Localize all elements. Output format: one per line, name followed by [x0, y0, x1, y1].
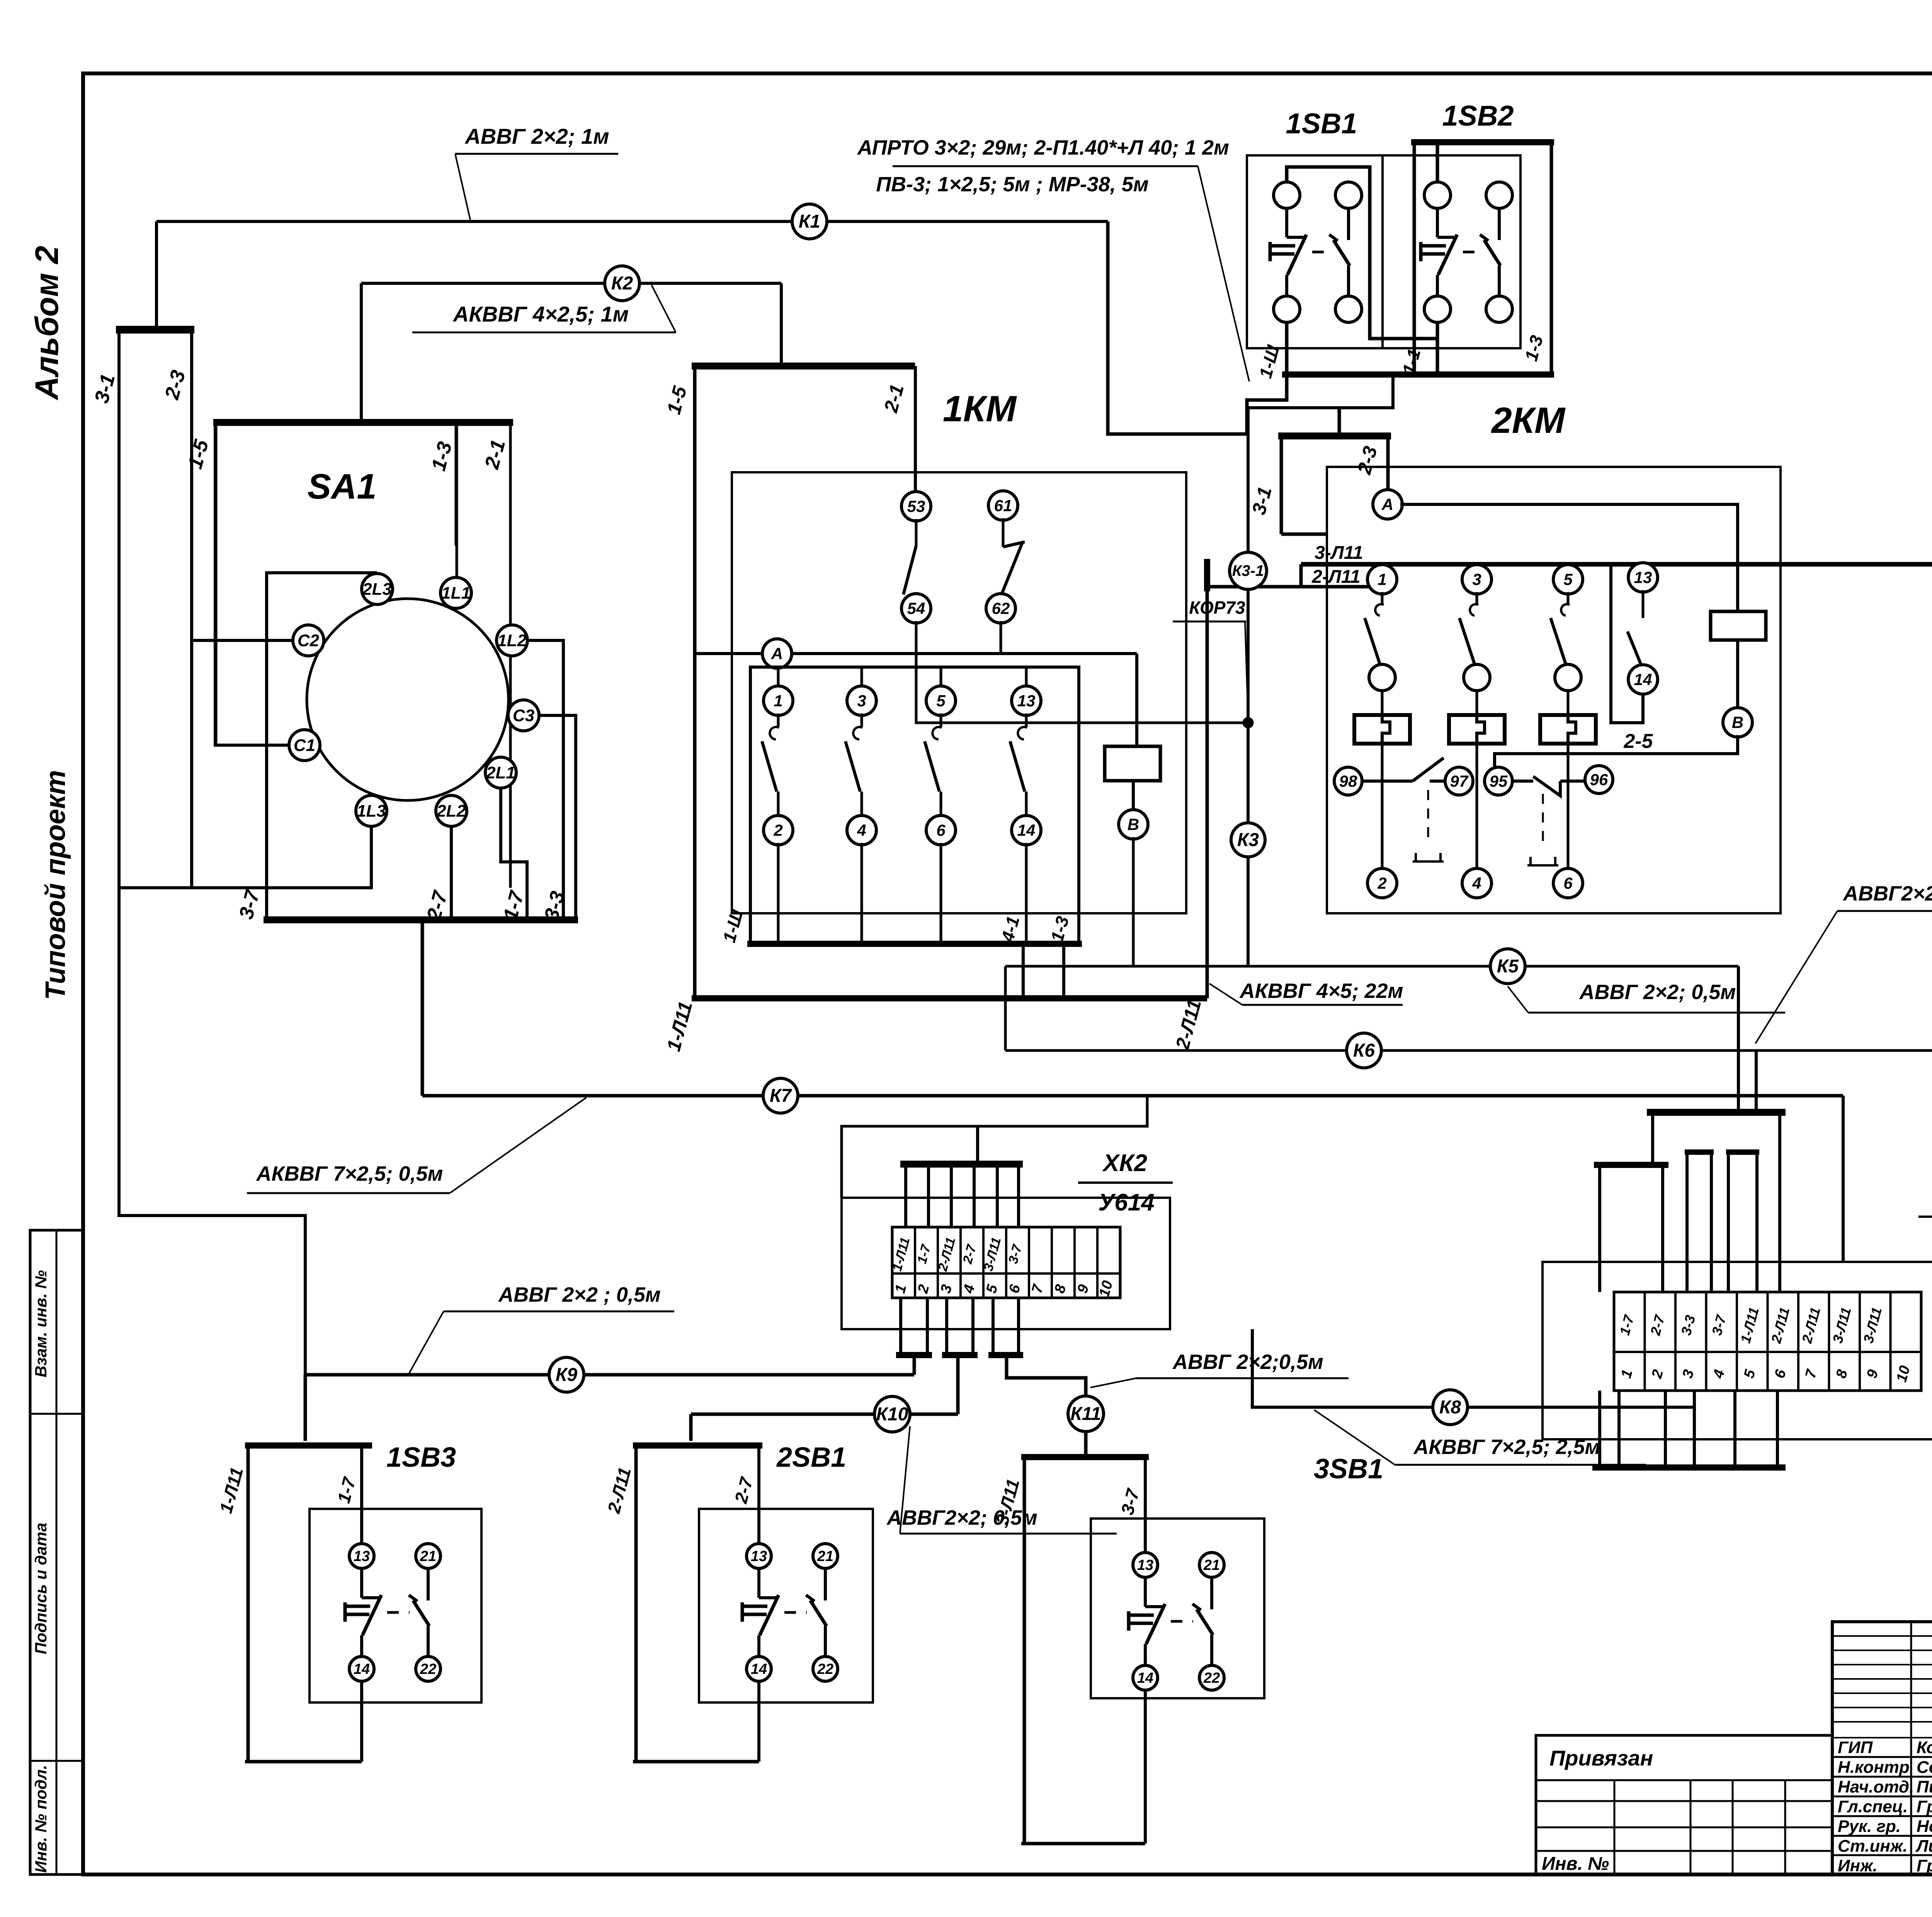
- svg-text:А: А: [1381, 495, 1393, 513]
- svg-text:21: 21: [420, 1548, 436, 1565]
- pole stem top 1: [777, 667, 780, 688]
- 2KM box: [1327, 467, 1781, 913]
- 1KM terminal 61: [988, 491, 1018, 520]
- svg-text:2КМ: 2КМ: [1491, 400, 1566, 441]
- 2SB1 bottom bus: [633, 1760, 759, 1764]
- wire K5 drop to XK1: [1737, 966, 1740, 1112]
- svg-text:К1: К1: [799, 211, 820, 232]
- 1SB2 TL stem: [1436, 142, 1439, 182]
- svg-text:Пискунов: Пискунов: [1917, 1777, 1932, 1796]
- circle K11: [1068, 1396, 1104, 1432]
- svg-text:1: 1: [774, 691, 782, 710]
- wire K8 leg to XK1: [1693, 1407, 1696, 1468]
- 2SB1 top bus: [633, 1442, 762, 1449]
- svg-text:6: 6: [1563, 874, 1573, 892]
- wire 1L2 to 3-3 leg: [527, 640, 563, 920]
- svg-text:К8: К8: [1439, 1397, 1461, 1418]
- button NO contact: [1287, 236, 1306, 239]
- svg-text:ХК2: ХК2: [1102, 1150, 1147, 1176]
- svg-text:14: 14: [1137, 1670, 1153, 1686]
- wire K7: [422, 1094, 1843, 1098]
- svg-text:2L1: 2L1: [486, 763, 515, 782]
- 1KM terminal 62: [986, 594, 1015, 623]
- svg-text:3: 3: [857, 691, 866, 710]
- 2KM terminal 6: [1553, 868, 1583, 898]
- 2KM aux dashed 2: [1542, 794, 1544, 846]
- svg-text:К10: К10: [876, 1404, 908, 1425]
- terminal 1L1: [440, 577, 471, 608]
- pole stem top 5: [940, 667, 942, 688]
- circle K3-1: [1230, 552, 1267, 589]
- button NC contact: [409, 1595, 417, 1601]
- 1SB2 BL stem: [1436, 322, 1439, 375]
- wire C3 to right leg: [539, 715, 576, 920]
- 1KM pole 13 bottom stem: [1025, 843, 1028, 944]
- wire K9: [305, 1373, 914, 1377]
- svg-text:2: 2: [1377, 874, 1386, 892]
- 2KM aux 96: [1585, 766, 1613, 793]
- wire K8: [1252, 1329, 1694, 1407]
- svg-text:Новикова: Новикова: [1917, 1817, 1932, 1836]
- svg-text:SA1: SA1: [308, 467, 377, 506]
- 2KM terminal A: [1373, 490, 1402, 519]
- svg-text:Подпись и дата: Подпись и дата: [32, 1523, 50, 1654]
- svg-text:Нач.отд.: Нач.отд.: [1838, 1777, 1914, 1796]
- 3SB1 terminal 13: [1133, 1553, 1158, 1577]
- 1KM contact 53 blade: [915, 519, 918, 546]
- 1SB2 stems: [1436, 208, 1439, 237]
- svg-text:Взам. инв. №: Взам. инв. №: [32, 1270, 50, 1377]
- 2KM terminal 4: [1462, 868, 1492, 898]
- 1KM coil to B: [1132, 781, 1135, 812]
- svg-text:13: 13: [1137, 1557, 1153, 1573]
- button NO contact: [1145, 1605, 1165, 1608]
- wire K5: [1005, 965, 1738, 968]
- wire K11 path: [1007, 1355, 1086, 1396]
- svg-text:К7: К7: [770, 1086, 793, 1106]
- 2KM wire 2-5: [1495, 735, 1738, 768]
- wire 2L3 up-left-down: [267, 573, 377, 920]
- wire 1-3 inside SA1: [456, 422, 458, 579]
- button NC contact: [1192, 1604, 1201, 1610]
- XK2 connect wire from K7: [842, 1096, 1147, 1198]
- XK1 outline box: [1543, 1262, 1932, 1439]
- svg-text:1L1: 1L1: [441, 584, 471, 603]
- XK1 top bus: [1647, 1109, 1786, 1116]
- switch SA1 box right edge: [509, 422, 512, 888]
- svg-text:1SB3: 1SB3: [386, 1442, 456, 1473]
- 1SB1 terminals: [1274, 182, 1300, 208]
- pole stem top 13: [1025, 667, 1028, 688]
- button link dashed: [784, 1611, 807, 1614]
- XK1 stub B: [1726, 1149, 1759, 1155]
- svg-text:22: 22: [1203, 1670, 1220, 1686]
- svg-text:Н.контр: Н.контр: [1838, 1758, 1910, 1777]
- button NC contact: [806, 1595, 815, 1601]
- svg-text:13: 13: [751, 1548, 767, 1565]
- XK2 top bus: [900, 1161, 1023, 1168]
- 1SB3 terminal 13: [349, 1544, 374, 1568]
- 2KM aux 95: [1485, 767, 1512, 795]
- wire 1L1 up: [455, 422, 457, 546]
- wire K2 drop to 1KM bus: [780, 283, 783, 366]
- circle K7: [763, 1078, 798, 1113]
- svg-text:А: А: [771, 644, 783, 662]
- XK1 bottom bus: [1592, 1464, 1786, 1471]
- svg-text:3: 3: [1472, 570, 1481, 588]
- terminal 2L1: [485, 757, 516, 788]
- contact blade 1-2: [777, 713, 780, 727]
- svg-text:Альбом 2: Альбом 2: [29, 246, 65, 400]
- svg-text:Сергеева: Сергеева: [1917, 1758, 1932, 1777]
- 2KM pole 1 stem upper: [1381, 666, 1384, 717]
- terminal 2L2: [436, 795, 467, 826]
- contact blade 5-6: [940, 713, 942, 727]
- vertical joining K5-K6: [1004, 966, 1007, 1050]
- cable box left top bus: [116, 326, 194, 334]
- 1SB3 stem 14 down: [360, 1680, 363, 1762]
- button link dashed: [1312, 251, 1330, 254]
- 2KM aux 95-96 contact: [1512, 780, 1533, 783]
- 1KM outer cable left leg: [693, 366, 697, 998]
- 1SB3 terminal 14: [349, 1657, 374, 1681]
- 1SB1 stems: [1285, 208, 1288, 237]
- wire 2-L11 to 2KM: [1207, 585, 1369, 589]
- 2KM heater 3: [1449, 715, 1505, 744]
- terminal 2: [764, 815, 793, 845]
- svg-text:Гл.спец.: Гл.спец.: [1838, 1797, 1908, 1816]
- button NC contact: [1480, 235, 1488, 241]
- svg-text:4: 4: [857, 821, 866, 839]
- 1KM bundle right leg 2-L11: [1206, 591, 1209, 998]
- leader K9 label: [409, 1311, 444, 1373]
- 1SB3 bottom bus: [245, 1760, 362, 1764]
- button actuator: [344, 1602, 347, 1622]
- wire SA1 bus down to K7: [421, 920, 424, 1096]
- 1SB3 terminal 22: [416, 1657, 440, 1681]
- svg-text:2SB1: 2SB1: [776, 1442, 846, 1473]
- svg-text:Грабовская: Грабовская: [1917, 1856, 1932, 1875]
- svg-text:5: 5: [936, 691, 946, 710]
- svg-text:21: 21: [817, 1548, 833, 1565]
- svg-text:АВВГ 2×2; 1м: АВВГ 2×2; 1м: [464, 124, 609, 148]
- svg-text:2L3: 2L3: [362, 580, 392, 599]
- 2KM wire terminal1 feed: [1368, 583, 1371, 586]
- 2KM aux 98-97 contact: [1362, 780, 1413, 783]
- 2SB1 terminal 22: [813, 1657, 838, 1681]
- svg-text:6: 6: [936, 821, 946, 839]
- 2KM pole 3 stem upper: [1476, 666, 1478, 717]
- svg-text:К11: К11: [1070, 1404, 1101, 1424]
- 2KM coil to B: [1736, 640, 1739, 710]
- XK2 terminal strip: [892, 1227, 1120, 1298]
- XK1 left bundle: [1594, 1162, 1668, 1168]
- 2KM pole 1 stem lower: [1381, 742, 1384, 883]
- 2KM aux dashed 1: [1427, 790, 1429, 842]
- svg-text:C1: C1: [294, 736, 315, 755]
- 2KM terminal 14: [1628, 665, 1658, 694]
- 2SB1 stem 14 down: [757, 1680, 760, 1762]
- 2SB1 contact stems: [757, 1568, 760, 1598]
- leader K11 label: [1090, 1378, 1136, 1388]
- XK2 bundle legs: [904, 1167, 907, 1227]
- leader K5 label: [1508, 986, 1528, 1013]
- 1KM inner box: [750, 667, 1079, 944]
- terminal 2L3: [362, 574, 393, 604]
- 2KM pole 3 stem lower: [1476, 742, 1478, 883]
- svg-text:АВВГ 2×2 ; 0,5м: АВВГ 2×2 ; 0,5м: [498, 1283, 661, 1306]
- 1SB2 box: [1383, 155, 1520, 348]
- SA1 box top bus: [213, 419, 513, 426]
- 3SB1 contact stems: [1144, 1577, 1147, 1607]
- wire K7 drop right: [1842, 1096, 1845, 1262]
- 1SB2 terminals: [1424, 182, 1451, 208]
- 1KM inner bottom bus: [747, 941, 1082, 947]
- terminal 3: [847, 686, 876, 715]
- wire 2L2 down to bus: [450, 826, 453, 920]
- button link dashed: [1463, 251, 1481, 254]
- XK1 stub A: [1685, 1149, 1714, 1155]
- svg-text:1L3: 1L3: [357, 802, 386, 821]
- button actuator: [741, 1602, 744, 1622]
- 3SB1 top bus: [1021, 1454, 1149, 1460]
- svg-text:Ст.инж.: Ст.инж.: [1838, 1837, 1908, 1856]
- 2KM heater 1: [1354, 715, 1410, 744]
- leader K6 label: [1755, 911, 1837, 1044]
- circle K5: [1490, 949, 1525, 984]
- svg-text:14: 14: [751, 1661, 767, 1677]
- 3SB1 left leg: [1023, 1457, 1026, 1844]
- 1SB2 outer top bus: [1411, 139, 1554, 145]
- svg-text:96: 96: [1590, 770, 1608, 788]
- title staff table: [1832, 1622, 1932, 1874]
- svg-text:62: 62: [992, 599, 1010, 617]
- 2KM cable box right leg 2-3: [1386, 436, 1390, 492]
- 1KM wire A: [695, 652, 1137, 655]
- SA1 bottom cable bus: [264, 916, 578, 923]
- terminal 13: [1012, 686, 1041, 715]
- terminal 5: [926, 686, 956, 715]
- leader KOR73: [1245, 621, 1248, 720]
- terminal 1: [764, 686, 793, 715]
- XK2 bottom stubs: [899, 1298, 902, 1353]
- leader AVVG2x2-1m: [455, 154, 471, 221]
- 2KM overload circle 5: [1555, 664, 1581, 691]
- leader AKVVG7x2.5-0.5: [450, 1098, 586, 1193]
- svg-text:2-Л11: 2-Л11: [1311, 567, 1360, 587]
- svg-text:Инж.: Инж.: [1838, 1856, 1878, 1875]
- 1KM pole 5 bottom stem: [940, 843, 942, 944]
- 2SB1 terminal 14: [747, 1657, 771, 1681]
- terminal 1L2: [497, 625, 527, 656]
- 2KM terminal 13: [1628, 563, 1658, 592]
- 2SB1 box: [699, 1509, 873, 1702]
- 2KM coil: [1711, 611, 1766, 640]
- svg-text:2L2: 2L2: [436, 802, 466, 821]
- 3SB1 terminal 14: [1133, 1665, 1158, 1690]
- svg-text:13: 13: [1017, 691, 1036, 710]
- 1SB3 left leg: [247, 1445, 250, 1762]
- circle K1: [792, 204, 827, 239]
- svg-text:22: 22: [817, 1661, 833, 1677]
- button actuator: [1127, 1611, 1131, 1631]
- svg-text:54: 54: [907, 599, 925, 617]
- wire C2 to left box: [192, 639, 293, 642]
- 2KM aux 98: [1334, 767, 1362, 795]
- 2KM overload circle 1: [1369, 664, 1395, 691]
- 1KM wire 62 down to A wire: [1000, 621, 1002, 654]
- svg-text:ГИП: ГИП: [1838, 1738, 1873, 1757]
- 1SB3 top bus: [245, 1442, 372, 1449]
- leader K10 label: [900, 1426, 910, 1534]
- 1KM terminal 54: [901, 594, 931, 623]
- wire 3-L11 main: [1301, 562, 1932, 567]
- svg-text:Рук. гр.: Рук. гр.: [1838, 1817, 1901, 1836]
- svg-text:98: 98: [1339, 772, 1357, 790]
- wire from K1 down to left box: [155, 221, 158, 328]
- svg-text:К3-1: К3-1: [1232, 562, 1264, 579]
- 2KM pole 5 stem lower: [1567, 742, 1570, 883]
- 1SB2 outer cable box: [1414, 142, 1551, 375]
- 1KM contact 53-54 stem: [914, 366, 917, 494]
- 1KM contact 61 blade NC: [1002, 518, 1005, 547]
- svg-text:Коган: Коган: [1917, 1738, 1932, 1757]
- 1KM wire B down to K5 wire: [1132, 837, 1135, 966]
- svg-text:22: 22: [420, 1661, 436, 1677]
- svg-text:В: В: [1128, 815, 1139, 833]
- svg-text:C2: C2: [298, 631, 320, 650]
- wire K1 right leg: [1108, 221, 1287, 434]
- svg-text:У614: У614: [1098, 1189, 1154, 1216]
- svg-text:1: 1: [1378, 570, 1386, 588]
- svg-text:АКВВГ 7×2,5; 2,5м: АКВВГ 7×2,5; 2,5м: [1413, 1435, 1600, 1459]
- wire 1L3 down to left box bottom: [119, 826, 371, 888]
- title block privyazan box: [1536, 1735, 1832, 1874]
- 2KM contact 1 blade: [1381, 592, 1384, 604]
- svg-text:Инв. №: Инв. №: [1542, 1854, 1609, 1874]
- svg-text:АКВВГ 4×2,5; 1м: АКВВГ 4×2,5; 1м: [452, 302, 629, 326]
- 2SB1 terminal 13: [747, 1544, 771, 1568]
- svg-text:К2: К2: [611, 273, 633, 294]
- 1KM wire to coil: [1135, 654, 1138, 746]
- svg-text:АПРТО 3×2; 29м; 2-П1.40*+Л 40;: АПРТО 3×2; 29м; 2-П1.40*+Л 40; 1 2м: [857, 136, 1229, 159]
- 2SB1 stem 13 up: [757, 1445, 760, 1544]
- leader AKVVG4x2.5: [651, 285, 676, 332]
- SA1 drum circle: [307, 599, 509, 800]
- wire into 2KM bus: [1338, 408, 1341, 436]
- 1KM terminal A: [762, 639, 792, 668]
- svg-text:21: 21: [1203, 1557, 1220, 1573]
- 1SB1 BL stem: [1285, 322, 1289, 375]
- terminal 4: [847, 815, 876, 845]
- XK1 bottom legs: [1598, 1391, 1601, 1468]
- 2KM terminal 5: [1553, 565, 1583, 594]
- leader APRTO: [1198, 166, 1249, 381]
- 1KM pole 1 bottom stem: [777, 843, 780, 944]
- 1KM coil: [1105, 746, 1160, 781]
- 2KM wire 3-L11 crossing drop to 13-14: [1611, 564, 1643, 723]
- wire K2 drop to SA1 bus: [360, 283, 363, 422]
- svg-text:14: 14: [1017, 821, 1036, 839]
- cable box left: [119, 328, 192, 888]
- 1KM drop 1-3: [1062, 944, 1065, 998]
- wire K6 drop to XK1: [1755, 1050, 1758, 1112]
- 3SB1 box: [1091, 1519, 1264, 1698]
- 1KM drop 4-1: [1022, 944, 1025, 998]
- 1SB3 box: [310, 1509, 481, 1702]
- 1KM terminal 53: [901, 492, 931, 521]
- button NO contact: [362, 1596, 381, 1599]
- wire C1 from box top: [215, 422, 289, 745]
- 2SB1 left leg: [634, 1445, 638, 1762]
- terminal C1: [289, 730, 320, 761]
- XK2 outline box: [842, 1198, 1170, 1329]
- wire K1: [156, 220, 1108, 223]
- svg-text:1КМ: 1КМ: [943, 388, 1017, 429]
- wire K6: [1005, 1049, 1932, 1052]
- 2KM terminal 1: [1367, 565, 1397, 594]
- button actuator: [1269, 242, 1272, 261]
- wire K10: [691, 1413, 958, 1416]
- 2KM aux 97: [1445, 767, 1473, 795]
- 2KM wire A to coil: [1400, 504, 1738, 611]
- 1KM outer bottom bus: [692, 995, 1207, 1001]
- XK1 bus legs: [1651, 1115, 1654, 1163]
- 2SB1 terminal 21: [813, 1544, 838, 1568]
- 3SB1 stem 13 up: [1144, 1457, 1147, 1553]
- 2KM contact 5 blade: [1567, 592, 1570, 604]
- svg-text:1SB1: 1SB1: [1286, 107, 1357, 140]
- terminal 6: [926, 815, 956, 845]
- button NO contact: [759, 1596, 779, 1599]
- svg-text:14: 14: [1634, 670, 1652, 688]
- wire K9 right leg to XK2 stub1: [913, 1355, 916, 1375]
- svg-text:АКВВГ 4×5; 22м: АКВВГ 4×5; 22м: [1239, 979, 1403, 1003]
- wire K2: [361, 282, 781, 285]
- svg-text:53: 53: [907, 497, 925, 515]
- svg-text:АВВГ2×2; 0,5м: АВВГ2×2; 0,5м: [1842, 882, 1932, 905]
- 2KM terminal B: [1723, 708, 1752, 737]
- wire 3-L11 left stub: [1299, 564, 1303, 587]
- 1SB1 wiring top loop: [1287, 167, 1437, 339]
- label cable APRTO underline: [893, 165, 1198, 167]
- circle K3: [1231, 823, 1265, 857]
- 2KM terminal 2: [1367, 868, 1397, 898]
- circle K8: [1433, 1390, 1468, 1425]
- svg-text:97: 97: [1450, 772, 1469, 790]
- 1KM box: [732, 472, 1186, 913]
- 3SB1 terminal 21: [1199, 1553, 1224, 1577]
- 2KM cable box: [1280, 436, 1283, 534]
- button link dashed: [1171, 1620, 1193, 1623]
- svg-text:АВВГ 2×2;0,5м: АВВГ 2×2;0,5м: [1172, 1350, 1323, 1374]
- svg-text:К3: К3: [1237, 830, 1259, 850]
- button NC contact: [1329, 235, 1338, 241]
- XK2 top stem: [976, 1126, 979, 1164]
- 3SB1 bottom bus: [1021, 1842, 1145, 1845]
- svg-text:КОР73: КОР73: [1189, 598, 1245, 618]
- 2KM heater 5: [1540, 715, 1596, 744]
- 2KM terminal 3: [1462, 565, 1492, 594]
- svg-text:3SB1: 3SB1: [1314, 1454, 1383, 1485]
- svg-text:C3: C3: [513, 706, 534, 725]
- button actuator: [1419, 242, 1423, 261]
- bundle cap 2KM: [1204, 559, 1210, 591]
- 1KM wire 54 to K3 junction: [916, 621, 1248, 723]
- svg-text:95: 95: [1490, 772, 1508, 790]
- terminal 1L3: [356, 795, 387, 826]
- svg-text:АВВГ 2×2; 0,5м: АВВГ 2×2; 0,5м: [1579, 981, 1736, 1004]
